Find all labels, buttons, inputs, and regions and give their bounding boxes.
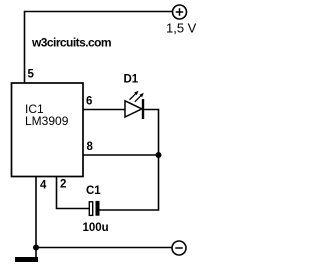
svg-text:w3circuits.com: w3circuits.com [31,36,111,50]
battery + terminal [173,5,187,19]
svg-text:D1: D1 [124,74,139,86]
svg-text:C1: C1 [86,185,101,197]
svg-text:1,5 V: 1,5 V [166,21,197,36]
svg-text:6: 6 [86,96,92,108]
ground junction node [33,245,39,251]
IC U1 box IC1 LM3909 [12,83,84,177]
wire top (pin 5 to battery +) [25,12,173,83]
svg-text:LM3909: LM3909 [25,114,69,128]
capacitor C1 [89,201,99,216]
junction node (pin 8 / LED) [156,152,162,158]
svg-text:2: 2 [60,179,66,191]
pin 2 wire [57,177,90,209]
LED D1 [125,91,144,119]
pin 6 wire [83,109,125,111]
wire LED cathode to right vertical, down to capacitor [100,110,159,211]
svg-text:4: 4 [40,180,47,192]
svg-text:100u: 100u [83,222,109,234]
pin 4 wire [35,177,37,248]
ground [15,248,38,263]
svg-text:5: 5 [28,69,35,81]
svg-text:8: 8 [87,141,94,153]
wire bottom (ground to battery -) [36,247,172,249]
battery - terminal [172,241,186,255]
pin 8 wire [83,154,159,156]
